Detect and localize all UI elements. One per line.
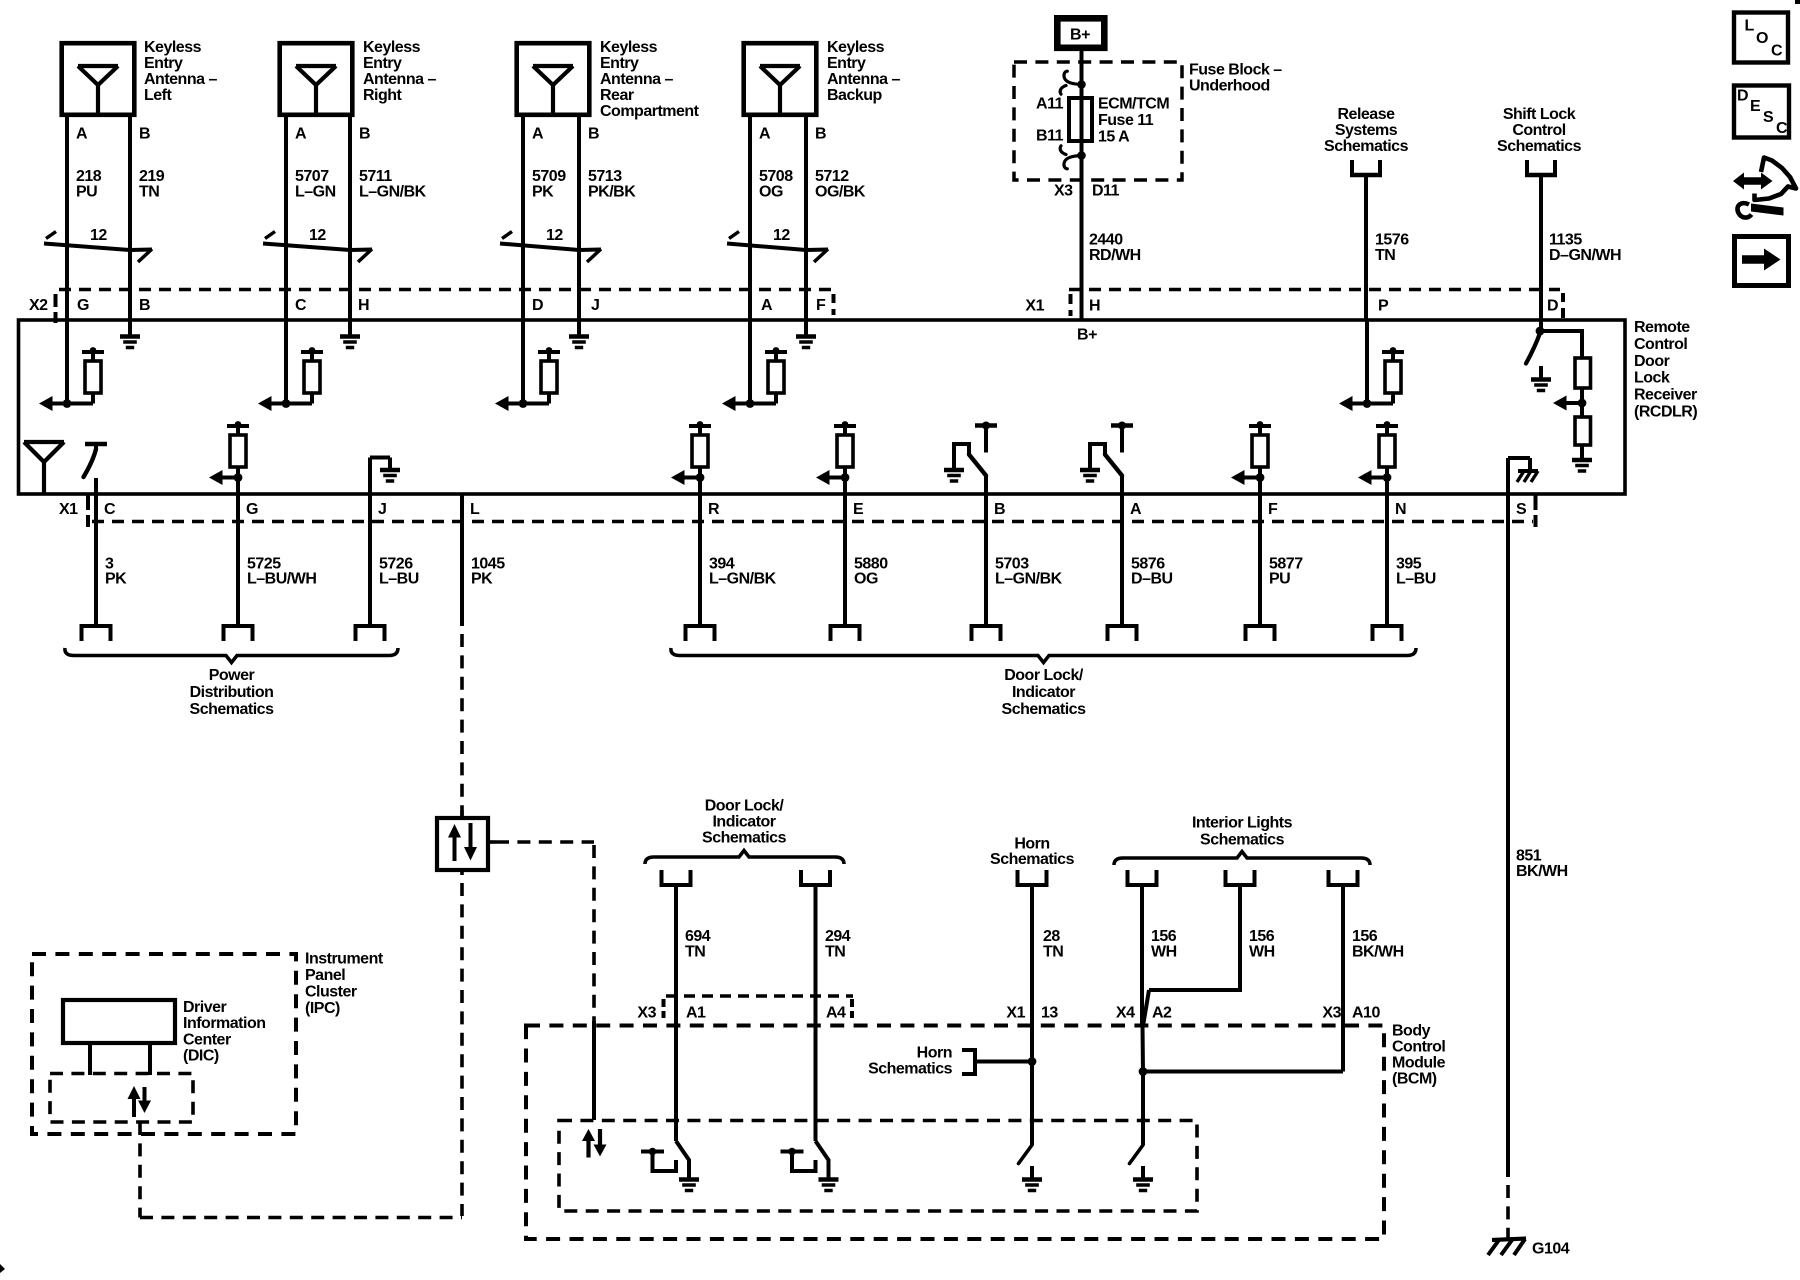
svg-text:S: S: [1763, 109, 1774, 126]
twisted pair crossover 2: [265, 232, 275, 239]
svg-text:B+: B+: [1077, 327, 1097, 344]
RCDLR B+ resistor network pin P: [1365, 321, 1369, 404]
wire 694 TN: [674, 887, 678, 1141]
svg-text:Schematics: Schematics: [1002, 701, 1087, 718]
svg-text:A10: A10: [1352, 1004, 1380, 1021]
svg-text:TN: TN: [1043, 944, 1063, 961]
arrow left divider: [1553, 396, 1567, 411]
terminal 694: [660, 870, 664, 885]
svg-text:Schematics: Schematics: [702, 830, 787, 847]
svg-text:WH: WH: [1151, 944, 1177, 961]
antenna symbol 1: [78, 64, 118, 68]
wire pin B antenna 2: [348, 117, 352, 321]
junction dot fuse top A11: [1077, 80, 1086, 89]
svg-text:Antenna –: Antenna –: [600, 71, 673, 88]
DIC stub right: [148, 1043, 152, 1075]
svg-text:Door: Door: [1634, 353, 1670, 370]
svg-text:PK: PK: [532, 183, 554, 200]
twisted pair crossover 3: [502, 232, 512, 239]
IPC connector dashed box: [50, 1074, 193, 1123]
DIC box: [63, 1000, 175, 1043]
RCDLR corner ground pin J: [368, 458, 372, 495]
connector X1 bottom dashed line: [92, 520, 1533, 524]
RCDLR output network pin G (resistor + arrow): [227, 424, 249, 428]
BCM inner dashed box: [559, 1121, 1197, 1212]
svg-text:C: C: [1771, 43, 1783, 60]
wire 28 TN: [1030, 887, 1034, 1145]
connector X1 bottom tick: [86, 495, 90, 510]
RCDLR switch pin C T-bar: [85, 442, 107, 447]
svg-text:Shift Lock: Shift Lock: [1503, 106, 1576, 123]
wire interior junction to switch: [1141, 1072, 1145, 1146]
svg-text:Center: Center: [183, 1031, 231, 1048]
RCDLR switch pin C contact wire: [94, 478, 98, 494]
svg-text:G: G: [77, 297, 89, 314]
twisted pair crossover 4: [729, 232, 739, 239]
svg-text:Receiver: Receiver: [1634, 387, 1697, 404]
wire into BCM solid: [592, 1021, 596, 1120]
svg-text:Interior Lights: Interior Lights: [1192, 815, 1293, 832]
svg-text:294: 294: [825, 928, 851, 945]
svg-text:Keyless: Keyless: [827, 39, 885, 56]
wire pin B antenna 1: [128, 117, 132, 321]
BCM driver contact + ground A1: [641, 1150, 664, 1154]
svg-text:156: 156: [1352, 928, 1378, 945]
svg-text:Keyless: Keyless: [363, 39, 421, 56]
svg-text:Power: Power: [209, 667, 255, 684]
dashed wire across bottom: [140, 1216, 462, 1220]
svg-text:F: F: [1268, 501, 1278, 518]
svg-text:L–GN/BK: L–GN/BK: [359, 183, 427, 200]
svg-text:F: F: [816, 297, 826, 314]
shift lock terminal: [1525, 160, 1529, 174]
svg-text:D–GN/WH: D–GN/WH: [1549, 247, 1621, 264]
svg-text:PK/BK: PK/BK: [588, 183, 636, 200]
svg-text:Schematics: Schematics: [1324, 138, 1409, 155]
junction dot divider: [1578, 399, 1587, 408]
terminal 5725: [222, 624, 255, 628]
wire pin to schematic 5726 L–BU: [368, 494, 372, 626]
horn schematics bracket: [962, 1050, 975, 1074]
svg-text:A2: A2: [1152, 1004, 1172, 1021]
svg-text:Keyless: Keyless: [600, 39, 658, 56]
svg-text:Antenna –: Antenna –: [827, 71, 900, 88]
svg-text:OG: OG: [759, 183, 783, 200]
svg-text:Cluster: Cluster: [305, 984, 357, 1001]
svg-text:X4: X4: [1116, 1004, 1135, 1021]
wire pin to schematic 5703 L–GN/BK: [984, 494, 988, 626]
bottom left corner mark: [0, 1264, 5, 1273]
resistor R1 divider: [1575, 358, 1591, 388]
icon arrow box: [1735, 237, 1789, 286]
wire horn bracket join: [975, 1060, 1032, 1064]
svg-text:A4: A4: [826, 1004, 846, 1021]
dashed wire 851 to G104: [1506, 1185, 1510, 1238]
svg-text:E: E: [853, 501, 864, 518]
svg-text:13: 13: [1041, 1004, 1058, 1021]
keyless entry antenna box 3: [517, 43, 590, 115]
svg-text:(DIC): (DIC): [183, 1048, 219, 1065]
svg-text:C: C: [104, 501, 116, 518]
BCM switch to ground horn 13: [1019, 1145, 1033, 1164]
connector X2 right tick: [832, 294, 836, 303]
wire pin L dashed 1045 PK: [460, 634, 464, 818]
svg-text:PK: PK: [105, 571, 127, 588]
svg-text:P: P: [1378, 298, 1389, 315]
svg-text:Distribution: Distribution: [190, 684, 274, 701]
wire shift lock to pin D 1135 D-GN/WH: [1539, 177, 1543, 321]
antenna symbol 4: [760, 64, 800, 68]
svg-text:12: 12: [773, 227, 790, 244]
wire pin B antenna 4: [804, 117, 808, 321]
svg-text:S: S: [1516, 501, 1527, 518]
release systems terminal: [1350, 160, 1354, 174]
RCDLR ground pin F: [804, 321, 808, 335]
svg-text:B: B: [139, 297, 150, 314]
icon LOC box: [1734, 13, 1788, 63]
svg-text:(RCDLR): (RCDLR): [1634, 404, 1697, 421]
svg-text:A: A: [532, 125, 544, 142]
svg-text:A: A: [761, 297, 773, 314]
connector X1 top right tick: [1561, 293, 1565, 302]
connector X3 dashed line: [666, 994, 853, 998]
svg-text:X3: X3: [637, 1004, 656, 1021]
terminal horn 28: [1016, 870, 1020, 885]
RCDLR chassis ground pin S: [1506, 458, 1510, 494]
svg-text:156: 156: [1249, 928, 1275, 945]
inline connector box: [437, 818, 488, 870]
svg-text:H: H: [358, 297, 369, 314]
svg-text:Left: Left: [144, 87, 173, 104]
svg-text:OG/BK: OG/BK: [815, 183, 866, 200]
RCDLR output network pin N (resistor + arrow): [1376, 424, 1398, 428]
wire pin L solid: [460, 494, 464, 626]
fuse F11 ECM/TCM 15A: [1069, 98, 1092, 141]
svg-text:X2: X2: [29, 297, 48, 314]
svg-text:Indicator: Indicator: [1012, 684, 1075, 701]
brace door lock indicator bottom: [671, 648, 1416, 663]
svg-text:Keyless: Keyless: [144, 39, 202, 56]
fuse clip hook top: [1064, 71, 1082, 84]
svg-text:ECM/TCM: ECM/TCM: [1098, 96, 1169, 113]
fuse block underhood dashed box: [1014, 62, 1182, 180]
connector S tick: [1534, 495, 1538, 510]
switch blade pin D: [1526, 333, 1540, 364]
svg-text:Schematics: Schematics: [868, 1061, 953, 1078]
wire pin to schematic 5876 D–BU: [1120, 494, 1124, 626]
svg-text:B: B: [359, 125, 370, 142]
svg-text:Door Lock/: Door Lock/: [705, 798, 785, 815]
RCDLR ground pin J: [577, 321, 581, 335]
wire pin to schematic 395 L–BU: [1385, 494, 1389, 626]
inline connector up arrow: [448, 824, 461, 838]
svg-text:694: 694: [685, 928, 711, 945]
RCDLR output network pin R (resistor + arrow): [689, 424, 711, 428]
connector X1 top tick: [1069, 294, 1073, 304]
RCDLR switch-to-ground pin A: [1111, 423, 1133, 427]
wire release to pin P 1576 TN: [1364, 177, 1368, 321]
BCM inner down arrow: [598, 1129, 602, 1147]
svg-text:12: 12: [90, 227, 107, 244]
svg-text:C: C: [295, 297, 307, 314]
svg-text:Entry: Entry: [827, 55, 866, 72]
svg-text:Entry: Entry: [600, 55, 639, 72]
svg-text:D–BU: D–BU: [1131, 571, 1173, 588]
svg-text:Fuse Block –: Fuse Block –: [1189, 62, 1282, 79]
BCM dashed box: [526, 1026, 1384, 1240]
connector X2 dashed line: [59, 288, 832, 292]
svg-text:H: H: [1089, 298, 1100, 315]
terminal 294: [799, 870, 803, 885]
svg-text:Entry: Entry: [363, 55, 402, 72]
svg-text:C: C: [1776, 120, 1788, 137]
svg-text:Horn: Horn: [1014, 836, 1049, 853]
terminal 5876: [1106, 624, 1139, 628]
wire pin to schematic 5880 OG: [843, 494, 847, 626]
terminal 395: [1371, 624, 1404, 628]
inline connector stub bottom: [460, 870, 464, 875]
icon double arrow: [1733, 173, 1773, 190]
wire pin D into box: [1539, 321, 1543, 331]
connector X2 tick: [54, 294, 58, 307]
RCDLR box: [19, 320, 1626, 494]
svg-text:156: 156: [1151, 928, 1177, 945]
svg-text:A11: A11: [1036, 96, 1064, 113]
brace door lock mid: [645, 851, 844, 865]
svg-text:Panel: Panel: [305, 967, 345, 984]
svg-text:15 A: 15 A: [1098, 128, 1130, 145]
svg-text:Schematics: Schematics: [1497, 138, 1582, 155]
svg-text:A1: A1: [686, 1004, 706, 1021]
wire pin A antenna 2: [284, 117, 288, 321]
svg-text:L–BU: L–BU: [1396, 571, 1436, 588]
svg-text:Information: Information: [183, 1015, 266, 1032]
svg-text:Control: Control: [1512, 122, 1565, 139]
junction dot interior lights: [1139, 1067, 1148, 1076]
terminal 156 WH b: [1224, 870, 1228, 885]
wire pin A antenna 4: [748, 117, 752, 321]
svg-text:A: A: [1130, 501, 1142, 518]
terminal 5877: [1244, 624, 1277, 628]
svg-text:G: G: [246, 501, 258, 518]
inline connector stub right: [488, 840, 496, 844]
svg-text:Horn: Horn: [917, 1045, 952, 1062]
svg-text:G104: G104: [1532, 1241, 1570, 1258]
wire pin S 851 BK/WH: [1506, 494, 1510, 1177]
svg-text:E: E: [1750, 98, 1761, 115]
svg-text:X1: X1: [1025, 298, 1044, 315]
resistor R2 divider: [1575, 417, 1591, 445]
BCM inner up arrow: [582, 1129, 595, 1141]
svg-text:B+: B+: [1070, 27, 1090, 44]
antenna symbol 3: [533, 64, 573, 68]
svg-text:B: B: [815, 125, 826, 142]
svg-text:PK: PK: [471, 571, 493, 588]
svg-text:PU: PU: [1269, 571, 1290, 588]
svg-text:28: 28: [1043, 928, 1060, 945]
svg-text:L–GN/BK: L–GN/BK: [995, 571, 1063, 588]
RCDLR switch-to-ground pin B: [975, 423, 997, 427]
svg-text:Schematics: Schematics: [1200, 832, 1285, 849]
svg-text:D: D: [532, 297, 543, 314]
svg-text:(IPC): (IPC): [305, 1000, 340, 1017]
svg-text:Backup: Backup: [827, 87, 883, 104]
RCDLR internal antenna: [24, 440, 64, 444]
wire 156 WH b: [1238, 887, 1242, 992]
svg-text:L: L: [1745, 18, 1755, 35]
svg-text:D11: D11: [1092, 183, 1120, 200]
BCM driver contact + ground A4: [781, 1150, 804, 1154]
svg-text:L–GN/BK: L–GN/BK: [709, 571, 777, 588]
wire D to divider: [1540, 329, 1584, 333]
svg-text:WH: WH: [1249, 944, 1275, 961]
wire divider mid: [1580, 388, 1584, 417]
svg-text:Antenna –: Antenna –: [363, 71, 436, 88]
svg-text:TN: TN: [1375, 247, 1395, 264]
svg-text:Instrument: Instrument: [305, 951, 384, 968]
svg-text:Right: Right: [363, 87, 403, 104]
svg-text:B: B: [588, 125, 599, 142]
svg-text:X3: X3: [1322, 1004, 1341, 1021]
svg-text:Door Lock/: Door Lock/: [1004, 667, 1084, 684]
terminal 5726: [354, 624, 387, 628]
wire 156 BK/WH: [1341, 887, 1345, 1072]
wire 28 continue: [1030, 1062, 1034, 1146]
svg-text:Antenna –: Antenna –: [144, 71, 217, 88]
RCDLR switch pin C blade: [84, 449, 97, 477]
svg-text:A: A: [76, 125, 88, 142]
svg-text:D: D: [1547, 298, 1558, 315]
terminal 3: [80, 624, 113, 628]
connector X3 tick: [662, 999, 666, 1007]
svg-text:J: J: [591, 297, 599, 314]
svg-text:Schematics: Schematics: [990, 851, 1075, 868]
RCDLR input network pin A (arrow + resistor): [748, 321, 752, 404]
wire pin to schematic 3 PK: [94, 494, 98, 626]
svg-text:Schematics: Schematics: [190, 701, 275, 718]
svg-text:TN: TN: [825, 944, 845, 961]
icon wrench: [1737, 203, 1751, 217]
antenna symbol 2: [296, 64, 336, 68]
RCDLR output network pin F (resistor + arrow): [1249, 424, 1271, 428]
svg-text:(BCM): (BCM): [1392, 1071, 1437, 1088]
RCDLR input network pin C (arrow + resistor): [284, 321, 288, 404]
svg-text:L–BU/WH: L–BU/WH: [247, 571, 316, 588]
terminal 394: [684, 624, 717, 628]
svg-text:PU: PU: [76, 183, 97, 200]
IPC dashed box: [32, 954, 296, 1134]
svg-text:X3: X3: [1054, 183, 1073, 200]
wire pin to schematic 394 L–GN/BK: [698, 494, 702, 626]
junction dot horn: [1028, 1057, 1037, 1066]
svg-text:Entry: Entry: [144, 55, 183, 72]
svg-text:Rear: Rear: [600, 87, 634, 104]
icon DESC box: [1734, 86, 1789, 138]
IPC connector down arrow: [143, 1087, 147, 1101]
RCDLR ground pin H: [348, 321, 352, 335]
svg-text:X1: X1: [1006, 1004, 1025, 1021]
svg-text:X1: X1: [59, 501, 78, 518]
ground divider: [1580, 445, 1584, 458]
svg-text:A: A: [759, 125, 771, 142]
svg-text:O: O: [1756, 30, 1768, 47]
svg-text:B11: B11: [1036, 128, 1064, 145]
svg-text:12: 12: [309, 227, 326, 244]
svg-text:OG: OG: [854, 571, 878, 588]
svg-text:R: R: [708, 501, 720, 518]
wire pin A antenna 1: [65, 117, 69, 321]
svg-text:BK/WH: BK/WH: [1516, 863, 1568, 880]
keyless entry antenna box 4: [744, 43, 817, 115]
keyless entry antenna box 1: [62, 43, 135, 115]
svg-text:Systems: Systems: [1335, 122, 1398, 139]
svg-text:L: L: [470, 501, 480, 518]
dashed wire connector to BCM: [496, 840, 594, 844]
svg-text:12: 12: [546, 227, 563, 244]
connector X3 right tick: [850, 999, 854, 1007]
svg-text:Module: Module: [1392, 1055, 1446, 1072]
svg-text:BK/WH: BK/WH: [1352, 944, 1404, 961]
svg-text:D: D: [1737, 88, 1748, 105]
svg-text:Driver: Driver: [183, 999, 227, 1016]
IPC connector up arrow: [128, 1086, 141, 1099]
RCDLR output network pin E (resistor + arrow): [834, 424, 856, 428]
svg-text:Compartment: Compartment: [600, 103, 700, 120]
svg-text:TN: TN: [685, 944, 705, 961]
inline connector down arrow: [469, 823, 473, 849]
svg-text:B: B: [139, 125, 150, 142]
top right corner mark: [1795, 0, 1800, 4]
svg-text:Control: Control: [1392, 1039, 1445, 1056]
brace power distribution: [65, 648, 398, 663]
svg-text:Lock: Lock: [1634, 370, 1670, 387]
terminal 5703: [970, 624, 1003, 628]
svg-text:RD/WH: RD/WH: [1089, 247, 1141, 264]
terminal 5880: [829, 624, 862, 628]
twisted pair crossover 1: [46, 232, 56, 239]
svg-text:Underhood: Underhood: [1189, 78, 1270, 95]
junction dot fuse bottom B11: [1077, 151, 1086, 160]
wire pin to schematic 5877 PU: [1258, 494, 1262, 626]
RCDLR input network pin G (arrow + resistor): [65, 321, 69, 404]
connector X1 top dashed line: [1069, 288, 1560, 292]
wire 294 TN: [814, 887, 818, 1141]
svg-text:Control: Control: [1634, 336, 1687, 353]
brace interior lights: [1114, 852, 1370, 866]
svg-text:A: A: [295, 125, 307, 142]
svg-text:Indicator: Indicator: [712, 814, 775, 831]
switch contact ground pin D: [1539, 366, 1543, 379]
svg-text:TN: TN: [139, 183, 159, 200]
svg-text:Fuse 11: Fuse 11: [1098, 112, 1154, 129]
svg-text:Release: Release: [1338, 106, 1396, 123]
dashed wire IPC down: [138, 1122, 142, 1218]
wire pin B antenna 3: [577, 117, 581, 321]
terminal 156 WH a: [1126, 870, 1130, 885]
wire interior lights join: [1143, 1070, 1343, 1074]
svg-text:Remote: Remote: [1634, 319, 1690, 336]
keyless entry antenna box 2: [280, 43, 353, 115]
svg-text:N: N: [1395, 501, 1406, 518]
terminal 156 BK/WH: [1327, 870, 1331, 885]
svg-text:851: 851: [1516, 848, 1542, 865]
wire B+ to RCDLR pin H 2440 RD/WH: [1080, 51, 1084, 321]
B+ box: [1057, 18, 1104, 48]
svg-text:B: B: [994, 501, 1005, 518]
BCM switch to ground interior A2: [1130, 1145, 1144, 1164]
svg-text:L–GN: L–GN: [295, 183, 336, 200]
DIC stub left: [88, 1043, 92, 1075]
